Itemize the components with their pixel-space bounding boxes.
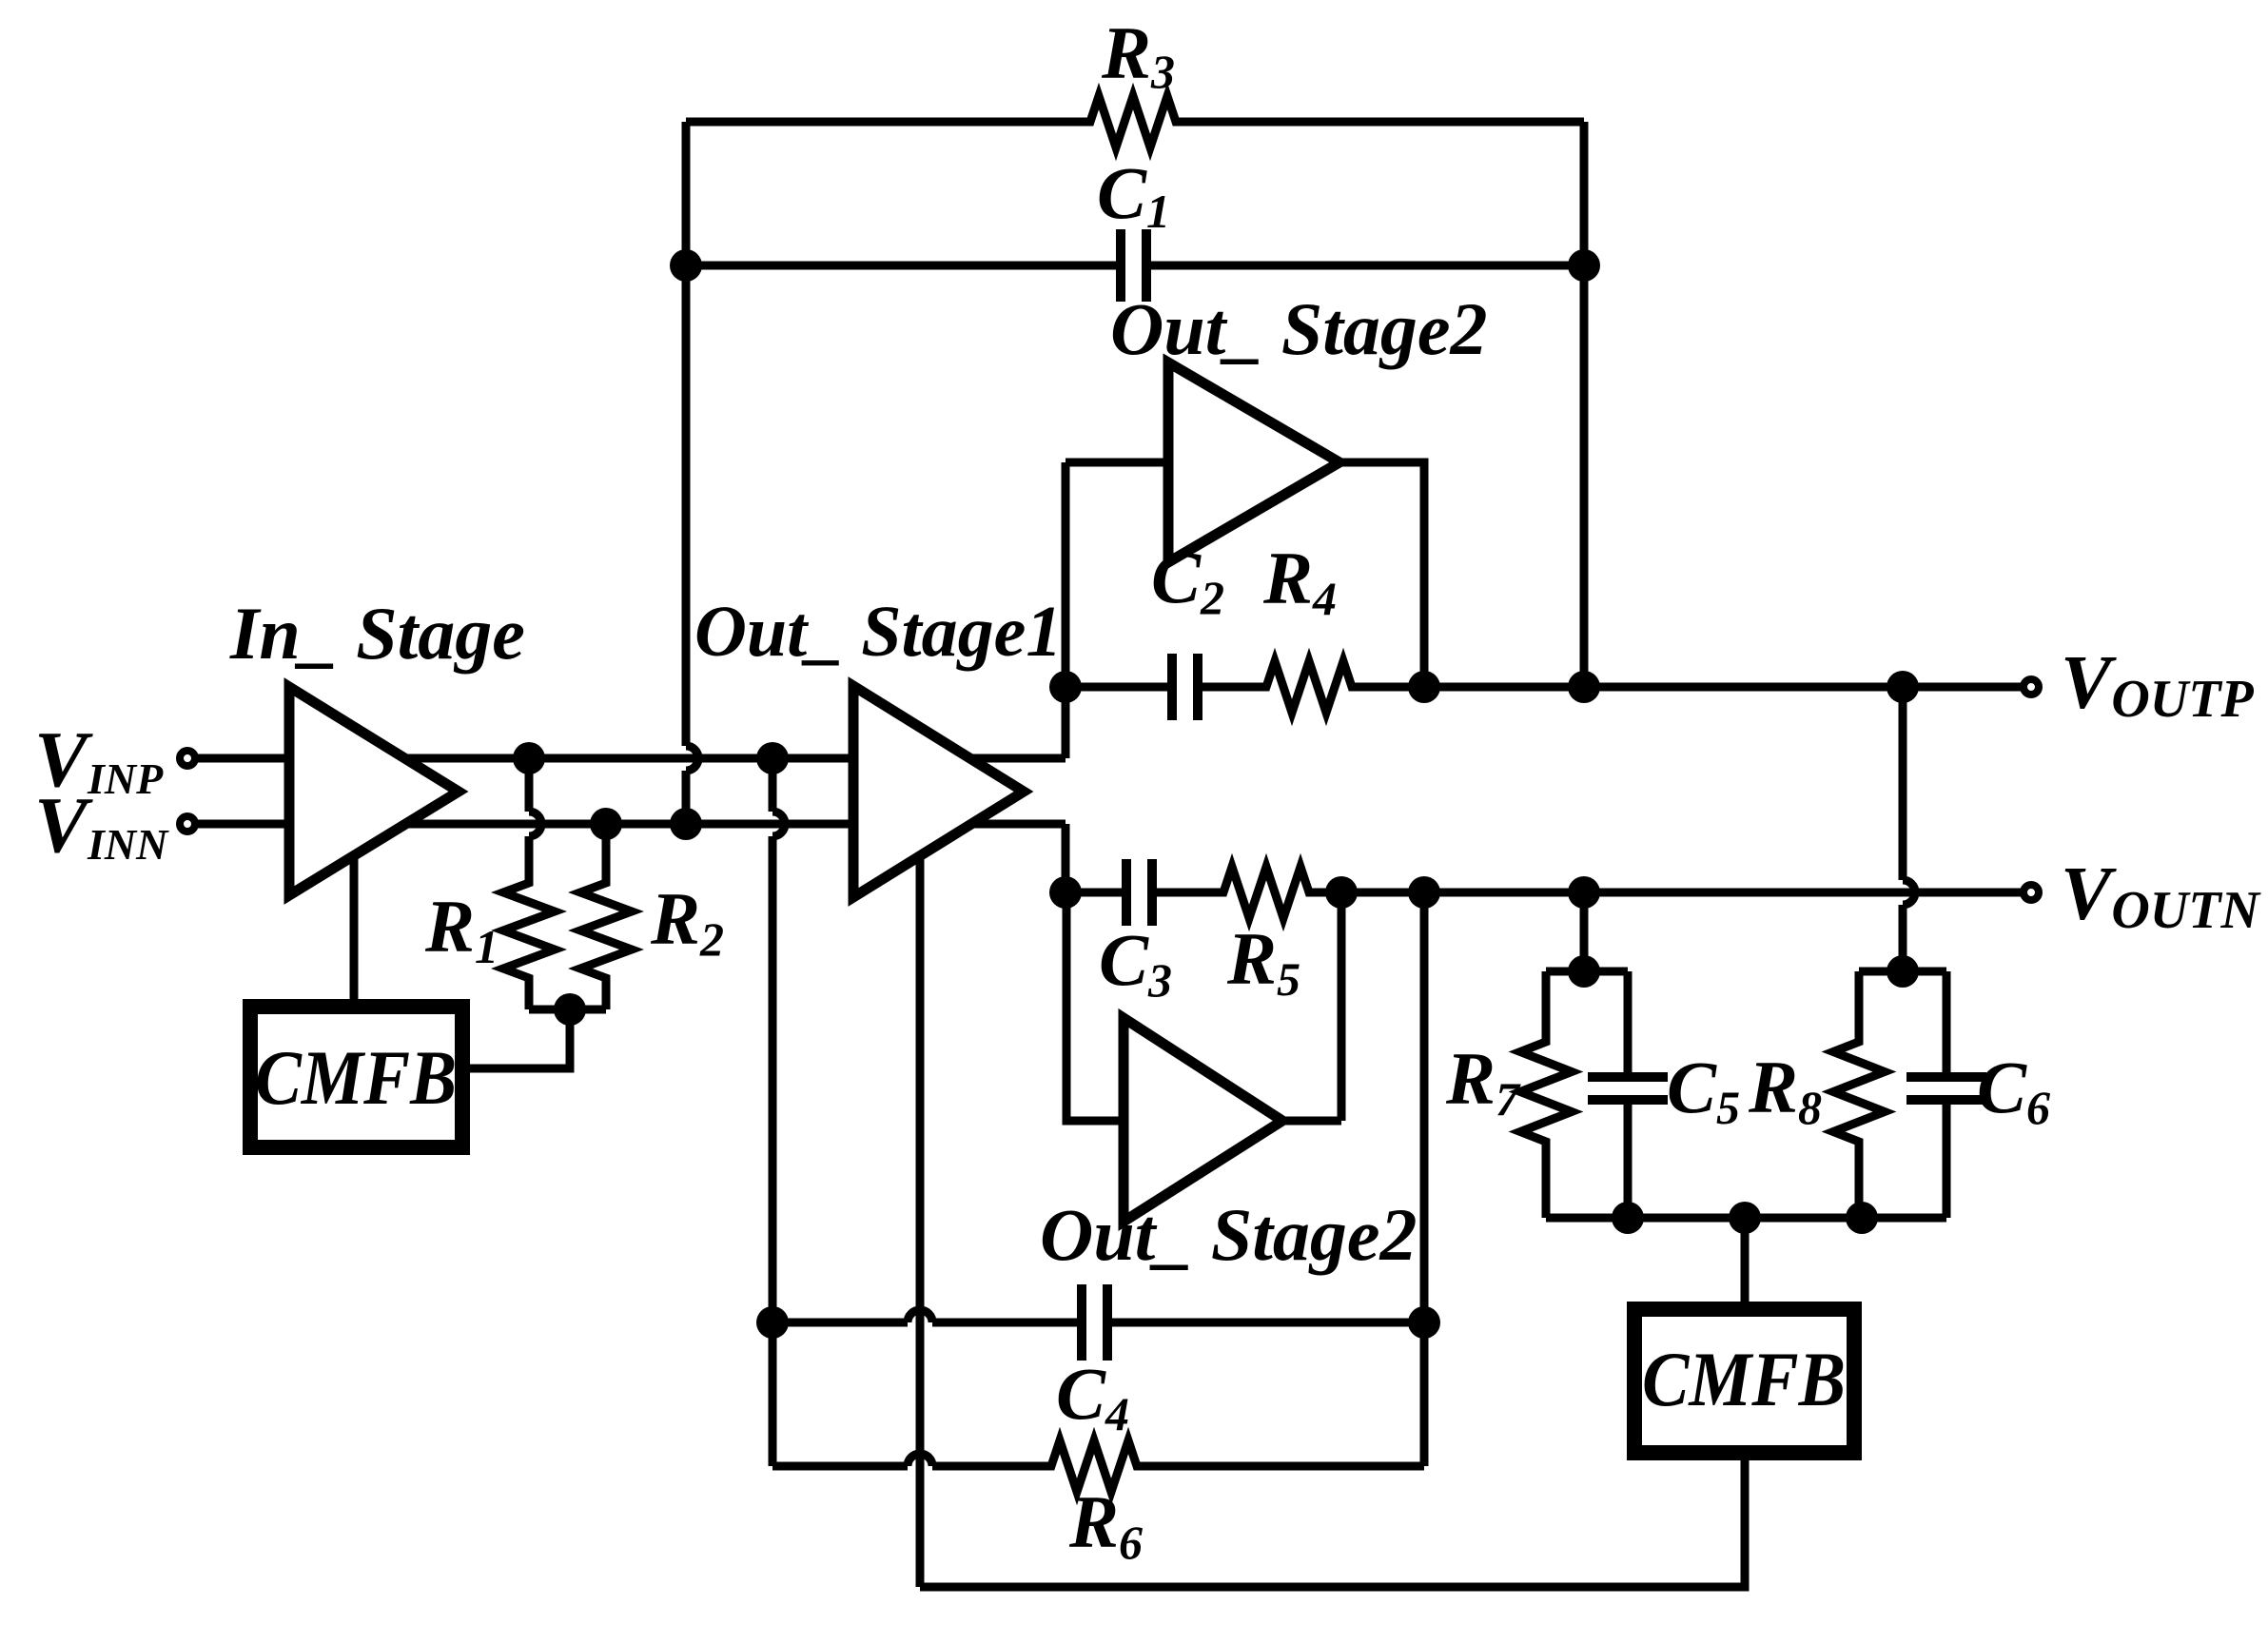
wire VOUTP rail left bbox=[1066, 683, 1168, 692]
resistor R1 upper lead bbox=[525, 758, 534, 812]
svg-text:R8: R8 bbox=[1748, 1046, 1822, 1134]
wire R6 rail left bbox=[772, 1462, 908, 1471]
terminal VINN bbox=[180, 816, 195, 832]
svg-text:In_ Stage: In_ Stage bbox=[229, 592, 525, 675]
wire hop R6 over tail bbox=[908, 1454, 932, 1466]
resistor R2 bbox=[580, 824, 632, 1009]
wire C4 rail mid bbox=[932, 1319, 1078, 1327]
svg-text:C2: C2 bbox=[1151, 536, 1224, 624]
capacitor C2 bbox=[1172, 654, 1198, 720]
wire Out_Stage1 output riser bottom bbox=[1062, 824, 1070, 892]
node feedback to VINN bbox=[670, 808, 702, 840]
svg-text:C5: C5 bbox=[1667, 1046, 1740, 1134]
wire C4 R6 right vertical bbox=[1420, 892, 1429, 1466]
capacitor C1 bbox=[1121, 229, 1146, 302]
op-amp In_Stage bbox=[289, 687, 459, 895]
node C1 right bbox=[1568, 249, 1600, 282]
wire C5 vertical lower bbox=[1624, 1104, 1633, 1218]
wire VOUTP drop lower bbox=[1899, 905, 1907, 971]
wire C5 vertical upper bbox=[1624, 971, 1633, 1073]
wire hop x=721 over VINP rail bbox=[686, 746, 698, 771]
wire VOUTN rail left bbox=[1066, 889, 1123, 897]
resistor R4 bbox=[1202, 661, 2023, 713]
node R3C1 output junction bbox=[1568, 671, 1600, 703]
svg-text:R4: R4 bbox=[1262, 537, 1337, 625]
capacitor C6 bbox=[1906, 1077, 1986, 1100]
node R8C6 bracket bbox=[1887, 955, 1919, 988]
resistor R7 bbox=[1520, 971, 1572, 1218]
wire left feedback vertical x=721 upper bbox=[682, 122, 691, 746]
node R7 drop top bbox=[1568, 876, 1600, 909]
svg-text:VOUTN: VOUTN bbox=[2061, 852, 2261, 940]
terminal VOUTP bbox=[2024, 679, 2039, 695]
svg-text:R5: R5 bbox=[1226, 917, 1300, 1006]
wire Out_Stage1 CMFB tail bbox=[916, 856, 925, 1587]
op-amp Out_Stage2 top bbox=[1168, 362, 1339, 562]
node R1 R2 tap bbox=[554, 993, 586, 1026]
node stage1 out top bbox=[1049, 671, 1082, 703]
svg-text:C3: C3 bbox=[1099, 918, 1172, 1007]
svg-text:VOUTP: VOUTP bbox=[2061, 641, 2254, 729]
wire Out_Stage2 top output bbox=[1339, 462, 1424, 687]
capacitor C5 bbox=[1588, 1077, 1668, 1100]
svg-text:R6: R6 bbox=[1068, 1480, 1143, 1569]
CMFB block left bbox=[250, 1007, 462, 1147]
wire C1 rail right bbox=[1150, 262, 1584, 270]
wire CMFB right drop bbox=[1741, 1218, 1750, 1302]
wire RC bottom rail bbox=[1546, 1214, 1946, 1223]
wire hop C4 over tail bbox=[908, 1310, 932, 1322]
capacitor C4 bbox=[1082, 1284, 1107, 1361]
wire R7 C5 drop bbox=[1580, 892, 1589, 971]
svg-text:Out_ Stage1: Out_ Stage1 bbox=[694, 592, 1062, 672]
node R2 top bbox=[590, 808, 622, 840]
wire VOUTP drop upper bbox=[1899, 687, 1907, 880]
wire hop R1 over VINN rail bbox=[529, 812, 541, 836]
svg-text:C4: C4 bbox=[1056, 1352, 1129, 1440]
svg-text:Out_ Stage2: Out_ Stage2 bbox=[1040, 1193, 1417, 1276]
resistor R6 bbox=[932, 1440, 1424, 1492]
wire C6 vertical upper bbox=[1943, 971, 1951, 1073]
node C4 right bbox=[1408, 1306, 1440, 1339]
node C4R6 top bbox=[1408, 876, 1440, 909]
svg-text:Out_ Stage2: Out_ Stage2 bbox=[1110, 287, 1488, 370]
node R4 right bbox=[1408, 671, 1440, 703]
node VOUTP drop bbox=[1887, 671, 1919, 703]
node R7C5 bracket bbox=[1568, 955, 1600, 988]
wire left feedback vertical x=721 lower bbox=[682, 771, 691, 824]
svg-text:R7: R7 bbox=[1445, 1037, 1521, 1126]
resistor R5 bbox=[1156, 867, 2024, 918]
resistor R3 top feedback bbox=[686, 96, 1584, 147]
wire VINP rail bbox=[196, 754, 1066, 763]
svg-text:R2: R2 bbox=[650, 877, 724, 966]
svg-text:CMFB: CMFB bbox=[1642, 1336, 1846, 1422]
wire In_Stage CMFB tail bbox=[350, 855, 359, 999]
resistor R1 bbox=[503, 836, 555, 1009]
wire C4 R6 left vertical lower bbox=[769, 836, 777, 1466]
node bottom rail C5 bbox=[1612, 1202, 1644, 1234]
node C1 left bbox=[670, 249, 702, 282]
wire C4 rail left bbox=[772, 1319, 908, 1327]
wire C4 R6 left vertical upper bbox=[769, 758, 777, 812]
node C4 branch top bbox=[756, 742, 789, 774]
wire Out_Stage2 bottom input bbox=[1066, 892, 1124, 1121]
node bottom rail CMFB bbox=[1729, 1202, 1761, 1234]
op-amp Out_Stage2 bottom bbox=[1124, 1018, 1282, 1222]
terminal VINP bbox=[180, 751, 195, 766]
wire C4 rail right bbox=[1111, 1319, 1424, 1327]
wire Out_Stage2 top input bbox=[1066, 459, 1168, 467]
wire hop x=812 over VINN rail bbox=[772, 812, 785, 836]
wire R8 C6 bracket top bbox=[1859, 968, 1946, 976]
node R1 top bbox=[513, 742, 545, 774]
node R5 right bbox=[1325, 876, 1358, 909]
wire R7 C5 bracket top bbox=[1546, 968, 1628, 976]
terminal VOUTN bbox=[2024, 885, 2039, 900]
node stage1 out bottom bbox=[1049, 876, 1082, 909]
wire right feedback vertical x=1665 bbox=[1580, 122, 1589, 687]
svg-text:R1: R1 bbox=[424, 885, 499, 973]
svg-text:R3: R3 bbox=[1101, 11, 1175, 98]
wire C6 vertical lower bbox=[1943, 1104, 1951, 1218]
capacitor C3 bbox=[1126, 859, 1152, 926]
resistor R8 bbox=[1833, 971, 1885, 1218]
op-amp Out_Stage1 bbox=[853, 686, 1024, 897]
wire R1 R2 bottom connector bbox=[529, 1006, 606, 1014]
wire center tap to CMFB bbox=[470, 1009, 570, 1068]
wire Out_Stage2 bottom output bbox=[1282, 892, 1341, 1121]
wire Out_Stage1 output riser top bbox=[1062, 462, 1070, 758]
CMFB block right bbox=[1634, 1309, 1854, 1453]
svg-text:C1: C1 bbox=[1097, 151, 1170, 238]
node C4 left bbox=[756, 1306, 789, 1339]
wire hop x=2000 over VOUTN rail bbox=[1903, 880, 1915, 905]
wire bottom CMFB return bbox=[920, 1460, 1745, 1587]
svg-text:C6: C6 bbox=[1977, 1046, 2050, 1134]
svg-text:CMFB: CMFB bbox=[255, 1034, 457, 1121]
wire C1 rail left bbox=[686, 262, 1117, 270]
wire VINN rail bbox=[196, 820, 1066, 829]
node bottom rail R8 bbox=[1846, 1202, 1878, 1234]
